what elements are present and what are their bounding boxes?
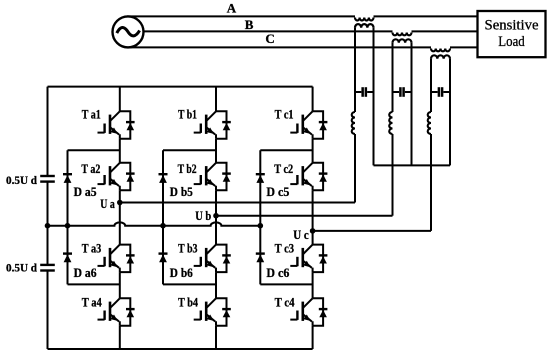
- svg-text:D a6: D a6: [74, 265, 97, 280]
- svg-text:C: C: [265, 31, 274, 46]
- svg-text:D c6: D c6: [266, 265, 289, 280]
- svg-text:T b2: T b2: [178, 161, 197, 176]
- svg-text:T c1: T c1: [275, 107, 294, 122]
- svg-text:D b6: D b6: [170, 265, 193, 280]
- svg-text:D a5: D a5: [74, 184, 97, 199]
- svg-text:T b1: T b1: [178, 107, 197, 122]
- svg-text:T a2: T a2: [81, 161, 100, 176]
- svg-text:T c4: T c4: [275, 294, 295, 309]
- svg-text:Load: Load: [498, 34, 525, 50]
- svg-text:T b4: T b4: [178, 294, 198, 309]
- svg-text:T a4: T a4: [82, 294, 102, 309]
- svg-text:T a3: T a3: [82, 240, 102, 255]
- svg-text:D c5: D c5: [266, 184, 289, 199]
- svg-text:T a1: T a1: [82, 107, 101, 122]
- svg-text:B: B: [245, 17, 254, 32]
- svg-text:T c2: T c2: [274, 161, 293, 176]
- svg-text:U a: U a: [100, 196, 115, 211]
- svg-text:0.5U d: 0.5U d: [6, 263, 38, 275]
- svg-text:0.5U d: 0.5U d: [6, 175, 38, 187]
- svg-text:Sensitive: Sensitive: [485, 17, 539, 33]
- svg-text:U b: U b: [195, 208, 211, 223]
- svg-text:D b5: D b5: [170, 184, 193, 199]
- svg-text:T c3: T c3: [275, 240, 295, 255]
- svg-text:T b3: T b3: [178, 240, 198, 255]
- svg-text:A: A: [227, 1, 237, 16]
- svg-text:U c: U c: [293, 227, 309, 242]
